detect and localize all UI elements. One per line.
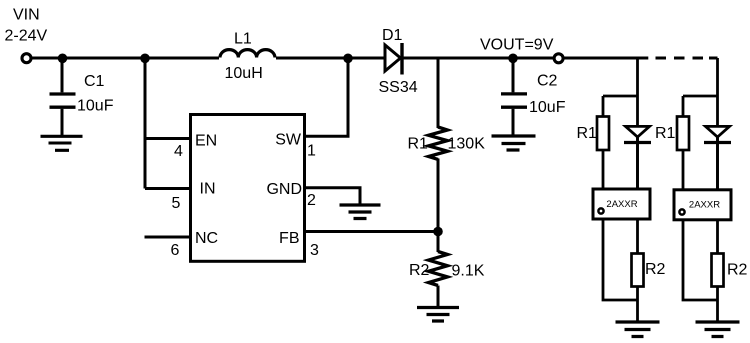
svg-text:R1: R1 [655, 125, 676, 142]
resistor R2 9.1K [429, 232, 448, 307]
LED diode (string 2) [704, 126, 731, 189]
wire: GND pin to ground [305, 188, 361, 204]
svg-text:L1: L1 [234, 31, 252, 48]
ground (R2) [417, 308, 459, 322]
junction: FB node [433, 227, 443, 237]
svg-text:EN: EN [195, 133, 217, 150]
junction: SW tap [343, 54, 353, 64]
output terminal [554, 54, 563, 63]
IC 2AXXR (string 1) [593, 189, 650, 219]
IC 2AXXR (string 2) [674, 190, 731, 220]
svg-text:9.1K: 9.1K [452, 263, 485, 280]
svg-text:FB: FB [279, 230, 299, 247]
svg-text:R1: R1 [408, 136, 429, 153]
wire: FB net [304, 230, 438, 233]
wire: main top rail (input side) [31, 57, 386, 60]
svg-text:2-24V: 2-24V [5, 28, 48, 45]
diode D1 [385, 43, 402, 75]
svg-text:R2: R2 [409, 262, 430, 279]
svg-text:4: 4 [174, 143, 183, 160]
svg-text:130K: 130K [448, 136, 486, 153]
svg-text:VIN: VIN [13, 7, 40, 24]
wire: string 1 top drop and branch [603, 58, 638, 189]
resistor R2 (string 2) [712, 254, 724, 287]
wire: string 2 R1 lower lead [682, 150, 685, 189]
svg-text:10uF: 10uF [77, 98, 114, 115]
svg-text:SW: SW [275, 132, 302, 149]
svg-text:2AXXR: 2AXXR [606, 199, 637, 210]
resistor R2 (string 1) [632, 254, 644, 287]
svg-text:NC: NC [195, 230, 218, 247]
svg-text:2: 2 [307, 192, 316, 209]
junction: IC input tap [140, 54, 150, 64]
ground (C1) [41, 136, 83, 150]
svg-text:C2: C2 [537, 73, 558, 90]
wire: SW pin to rail [304, 59, 348, 136]
svg-text:D1: D1 [382, 27, 403, 44]
junction: C2 tap [508, 54, 518, 64]
wire: dashed rail corner [709, 57, 718, 60]
svg-text:C1: C1 [84, 73, 105, 90]
op IC U1 body [191, 115, 305, 262]
wire: string 2 top drop and branch [683, 58, 718, 189]
svg-text:IN: IN [200, 181, 216, 198]
capacitor C2 [501, 58, 527, 135]
svg-text:R2: R2 [645, 261, 666, 278]
svg-text:1: 1 [307, 143, 316, 160]
ground (C2) [492, 136, 536, 150]
junction: C1 tap [58, 54, 68, 64]
wire: string 2 below box [683, 219, 718, 321]
resistor R1 130K [429, 58, 448, 232]
svg-text:R2: R2 [727, 262, 748, 279]
label VIN [5, 7, 48, 45]
capacitor C1 [50, 58, 76, 135]
svg-text:10uF: 10uF [529, 99, 566, 116]
svg-text:5: 5 [172, 195, 181, 212]
svg-text:6: 6 [171, 242, 180, 259]
svg-text:VOUT=9V: VOUT=9V [480, 36, 554, 53]
svg-text:10uH: 10uH [225, 65, 263, 82]
wire: dashed rail extension [656, 57, 704, 60]
wire: NC stub [145, 236, 192, 239]
svg-text:GND: GND [266, 181, 302, 198]
resistor R1 (string 1) [597, 117, 609, 151]
svg-text:3: 3 [310, 242, 319, 259]
inductor L1 [219, 50, 276, 61]
resistor R1 (string 2) [677, 117, 689, 151]
ground (string 1) [616, 322, 660, 337]
LED diode (string 1) [624, 126, 651, 189]
ground (string 2) [696, 322, 740, 337]
svg-text:2AXXR: 2AXXR [689, 199, 720, 210]
wire: string 1 below box [603, 219, 638, 321]
wire: feed to EN and IN pins [145, 58, 191, 189]
wire: string 1 R1 lower lead [602, 150, 605, 189]
svg-text:R1: R1 [577, 125, 598, 142]
input terminal [22, 54, 31, 63]
wire: main top rail (output side) [402, 57, 648, 60]
ground (GND pin) [340, 205, 381, 219]
svg-text:SS34: SS34 [379, 79, 418, 96]
